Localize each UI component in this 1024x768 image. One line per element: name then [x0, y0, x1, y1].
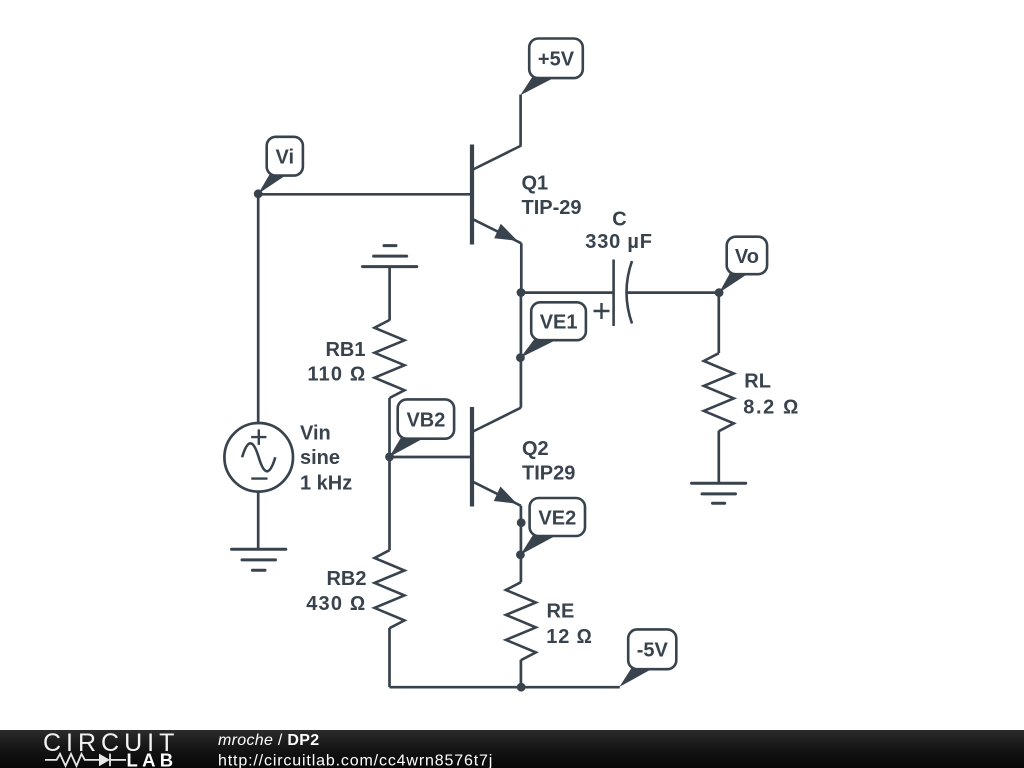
- wire base Q1 horizontal: [258, 193, 470, 196]
- svg-text:sine: sine: [300, 447, 340, 469]
- svg-text:Q2: Q2: [522, 438, 549, 460]
- resistor RB2: [375, 550, 405, 628]
- node dot Vi: [254, 189, 263, 198]
- label C 330 uF: [585, 208, 652, 253]
- label RB1 110 ohm: [307, 339, 366, 386]
- node dot Q2 emitter: [517, 518, 526, 527]
- wire Vi vertical to source: [257, 194, 260, 423]
- wire RL to ground: [717, 431, 720, 483]
- svg-text:-5V: -5V: [637, 640, 669, 662]
- svg-text:http://circuitlab.com/cc4wrn85: http://circuitlab.com/cc4wrn8576t7j: [218, 753, 493, 768]
- svg-text:1 kHz: 1 kHz: [300, 472, 352, 494]
- svg-text:mroche / DP2: mroche / DP2: [218, 732, 319, 749]
- label Q1 TIP-29: [522, 172, 582, 219]
- svg-text:330 µF: 330 µF: [585, 231, 652, 253]
- label RL 8.2 ohm: [743, 371, 800, 419]
- svg-text:VE2: VE2: [538, 507, 576, 529]
- svg-text:RB1: RB1: [325, 339, 365, 361]
- resistor RL: [704, 353, 734, 431]
- wire RB2 to bottom rail: [388, 628, 391, 687]
- wire RB1 to VB2 node: [388, 398, 391, 457]
- ground above RB1 (inverted): [363, 246, 417, 267]
- svg-text:+5V: +5V: [538, 49, 575, 71]
- svg-text:C: C: [612, 208, 626, 230]
- footer title mroche / DP2: [218, 732, 319, 749]
- svg-text:RE: RE: [547, 601, 575, 623]
- svg-text:Vin: Vin: [300, 422, 331, 444]
- svg-text:110 Ω: 110 Ω: [307, 364, 366, 386]
- wire top node to capacitor: [521, 291, 614, 294]
- flag Vo: [719, 237, 767, 293]
- wire VB2 node to Q2 base: [390, 456, 471, 459]
- svg-text:LAB: LAB: [127, 749, 178, 768]
- label Q2 TIP29: [522, 438, 575, 485]
- svg-text:Vi: Vi: [276, 147, 295, 169]
- node dot Vo: [715, 288, 724, 297]
- svg-text:Vo: Vo: [735, 246, 759, 268]
- wire ground stem to RB1: [388, 267, 391, 321]
- wire Q2 emitter to RE: [520, 506, 523, 582]
- resistor RB1: [375, 320, 405, 398]
- wire capacitor to Vo node: [627, 291, 719, 294]
- wire source to ground: [257, 491, 260, 549]
- flag Vi: [258, 137, 303, 194]
- wire VB2 node to RB2: [388, 457, 391, 550]
- footer url: [218, 753, 493, 768]
- resistor RE: [506, 582, 536, 660]
- svg-text:TIP-29: TIP-29: [522, 197, 582, 219]
- label RB2 430 ohm: [306, 568, 366, 615]
- flag +5V: [520, 39, 583, 96]
- transistor Q1 TIP-29: [472, 145, 521, 245]
- logo CIRCUIT: [43, 729, 179, 757]
- transistor Q2 TIP29: [472, 407, 521, 507]
- flag VE1: [520, 302, 586, 357]
- logo resistor-diode glyph: [45, 754, 126, 767]
- svg-text:12 Ω: 12 Ω: [546, 626, 592, 648]
- ground below RL: [692, 483, 746, 503]
- capacitor C 330uF: [594, 260, 633, 327]
- svg-text:RL: RL: [744, 371, 771, 393]
- svg-text:8.2 Ω: 8.2 Ω: [743, 396, 800, 418]
- wire RE to bottom rail: [520, 660, 523, 687]
- flag VE2: [520, 498, 585, 555]
- wire Q1 emitter to top node: [520, 243, 523, 292]
- flag VB2: [389, 399, 454, 457]
- node dot VB2: [385, 453, 394, 462]
- svg-text:430 Ω: 430 Ω: [306, 593, 366, 615]
- wire bottom rail: [390, 686, 620, 689]
- node dot bottom rail: [517, 683, 526, 692]
- svg-text:Q1: Q1: [522, 172, 549, 194]
- node dot VE2: [516, 550, 525, 559]
- svg-text:RB2: RB2: [326, 568, 366, 590]
- label RE 12 ohm: [546, 601, 592, 649]
- wire Q2 collector to top node: [520, 293, 523, 408]
- wire +5V to Q1 collector: [519, 95, 522, 146]
- label Vin sine 1 kHz: [300, 422, 352, 494]
- wire Vo node to RL: [717, 293, 720, 354]
- node dot top (C junction): [517, 288, 526, 297]
- footer bar: [0, 730, 1024, 768]
- svg-text:VB2: VB2: [406, 409, 445, 431]
- voltage source V1 Vin: [224, 423, 293, 492]
- svg-text:VE1: VE1: [540, 312, 578, 334]
- node dot VE1: [516, 353, 525, 362]
- logo LAB: [127, 749, 178, 768]
- svg-text:TIP29: TIP29: [522, 463, 575, 485]
- flag -5V: [619, 629, 676, 687]
- ground below source: [232, 549, 286, 570]
